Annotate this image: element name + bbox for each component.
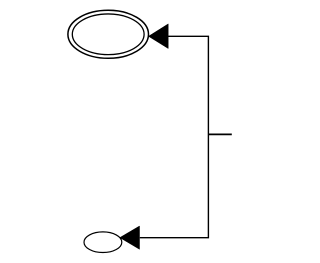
state node S1 inner ring <box>72 14 144 55</box>
state node S1 (accepting state, outer ring of double ellipse) <box>68 10 149 58</box>
state node S2 (small ellipse) <box>84 232 122 253</box>
wire: top horizontal segment, right vertical trunk, bottom horizontal segment <box>140 36 209 237</box>
tick stub on trunk (node T) <box>208 133 231 135</box>
arrowhead into S1 <box>149 24 169 49</box>
arrowhead into S2 <box>120 226 140 249</box>
